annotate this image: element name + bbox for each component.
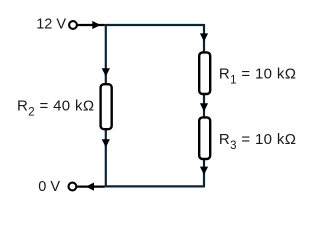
resistor R1 body bbox=[199, 52, 210, 94]
current arrow above R1 (points down) bbox=[200, 33, 208, 41]
svg-text:0 V: 0 V bbox=[38, 179, 60, 195]
resistor R3 body bbox=[199, 117, 210, 159]
wire right branch vertical bbox=[203, 24, 205, 186]
terminal 12 V (open circle) bbox=[69, 21, 77, 29]
current arrow on 12V lead (points right) bbox=[92, 21, 100, 29]
wire left branch vertical bbox=[105, 24, 107, 187]
current arrow between R1 and R3 (points down) bbox=[200, 103, 208, 111]
svg-text:R1 = 10 kΩ: R1 = 10 kΩ bbox=[219, 66, 296, 87]
current arrow on 0V lead (points left) bbox=[86, 183, 94, 191]
wire top rail (navy) bbox=[106, 24, 204, 26]
svg-text:12 V: 12 V bbox=[36, 17, 66, 33]
terminal 0 V (open circle) bbox=[69, 183, 77, 191]
current arrow below R3 (points down) bbox=[200, 167, 208, 175]
wire 12V terminal lead (black) bbox=[78, 24, 105, 26]
current arrow below R2 (points down) bbox=[102, 139, 110, 147]
wire 0V terminal lead (black) bbox=[77, 186, 105, 188]
wire bottom rail (navy) bbox=[106, 185, 205, 187]
svg-text:R3 = 10 kΩ: R3 = 10 kΩ bbox=[219, 131, 296, 152]
current arrow above R2 (points down) bbox=[102, 68, 110, 76]
svg-text:R2 = 40 kΩ: R2 = 40 kΩ bbox=[17, 98, 94, 119]
resistor R2 body bbox=[101, 84, 112, 129]
